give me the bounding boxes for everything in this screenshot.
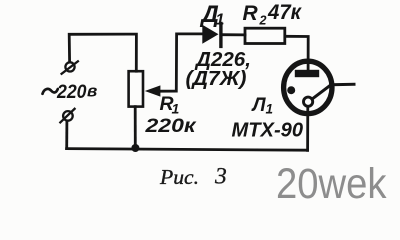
wire: diode to R2 (222, 33, 245, 36)
lamp Л1 starter electrode lead (313, 84, 354, 98)
svg-text:Рис.: Рис. (159, 165, 199, 189)
wire: bottom rail (67, 149, 308, 151)
label ~220в (43, 89, 58, 94)
wire: R1 wiper to diode (arrow tail, up, across) (160, 34, 203, 91)
svg-text:47к: 47к (267, 1, 302, 24)
terminal X1 (top, circle with slash) (62, 61, 78, 74)
wire: lamp cathode lead down to bottom rail (306, 106, 309, 151)
svg-text:R: R (243, 2, 259, 25)
wire: bottom terminal lead down (65, 121, 68, 148)
svg-text:в: в (87, 82, 97, 101)
lamp Л1 cold-cathode ring (304, 97, 313, 106)
svg-text:1: 1 (266, 102, 274, 117)
terminal X2 (bottom, circle with slash) (60, 109, 74, 123)
svg-text:3: 3 (214, 164, 227, 190)
wire: R2 to lamp anode (across and down) (285, 36, 308, 70)
svg-text:220к: 220к (144, 115, 196, 137)
svg-text:1: 1 (216, 12, 225, 29)
resistor R2 body (245, 28, 285, 43)
svg-text:20wek: 20wek (276, 160, 387, 206)
lamp Л1 anode bar (295, 70, 319, 77)
potentiometer R1 body (129, 71, 143, 106)
junction node (R1 / bottom rail) (131, 144, 139, 152)
wire top-left: from terminal up, across, down to R1 top (69, 34, 136, 71)
lamp Л1 gas-filling dot (287, 86, 295, 94)
wire: R1 bottom lead (134, 107, 137, 149)
svg-text:2: 2 (259, 13, 267, 27)
R1 wiper arrowhead (145, 85, 161, 96)
svg-text:(Д7Ж): (Д7Ж) (186, 68, 247, 90)
svg-text:МТХ-90: МТХ-90 (232, 119, 304, 142)
diode Д1 cathode bar (219, 24, 222, 47)
diode Д1 (anode triangle) (202, 25, 218, 44)
thyratron lamp Л1 envelope (284, 61, 332, 113)
svg-text:220: 220 (56, 82, 87, 103)
svg-text:Л: Л (251, 95, 267, 116)
